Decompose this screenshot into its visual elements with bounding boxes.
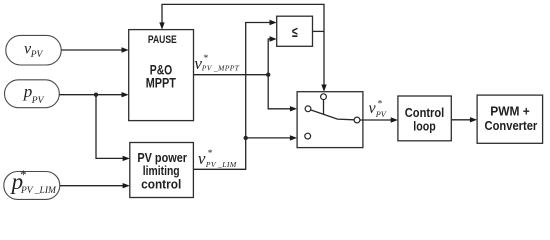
svg-text:MPPT: MPPT [146,75,176,91]
wire comparator output to pause/select line [313,30,325,32]
junction node B on vPV_LIM riser [244,136,248,140]
wire node B to switch input 2 [246,135,297,140]
wire MPPT output vPV_MPPT [194,74,269,76]
wire control loop to PWM [451,117,477,122]
comparator U3 (less-or-equal) [277,16,313,46]
wire pPV_LIM to limiting control [60,183,130,188]
svg-text:PV: PV [375,110,387,119]
block U2 PV power limiting control [130,143,194,198]
node pPV_LIM reference terminal [4,167,60,199]
switch S1 [297,92,363,148]
svg-text:PV _MPPT: PV _MPPT [201,63,240,72]
svg-text:PWM +: PWM + [490,104,530,119]
wire pPV to MPPT [59,92,128,97]
wire limiting control output vPV_LIM up to comparator input a [193,20,276,170]
label v*_PV_MPPT [194,54,239,73]
junction node A on MPPT output [266,73,270,77]
wire switch output vPV to control loop [360,117,398,122]
svg-text:*: * [203,54,208,64]
label v*_PV [369,100,387,119]
svg-text:PV _LIM: PV _LIM [205,160,237,169]
svg-text:PV _LIM: PV _LIM [20,186,57,196]
svg-text:*: * [20,167,27,182]
block U1 P&O MPPT [129,30,194,121]
svg-text:*: * [207,149,212,159]
svg-text:Converter: Converter [485,118,538,133]
wire node A down to switch input 1 [268,75,297,112]
svg-text:≤: ≤ [292,23,298,40]
block U5 PWM + converter [477,95,542,143]
svg-text:loop: loop [413,118,435,133]
wire select riser and top pause run [159,4,326,91]
svg-text:control: control [141,177,181,192]
svg-text:PAUSE: PAUSE [148,34,177,46]
label v*_PV_LIM [198,149,237,169]
svg-text:PV: PV [30,50,44,60]
node vPV input terminal [6,35,61,65]
svg-text:PV: PV [31,96,45,106]
svg-text:v: v [198,149,206,168]
wire node A up to comparator input b [268,36,277,74]
junction pPV branch [94,93,98,97]
wire vPV to MPPT [61,47,129,52]
svg-text:*: * [377,100,382,110]
wire pPV branch to limiting control [96,95,130,161]
block U4 control loop [398,96,451,141]
node pPV input terminal [5,80,60,108]
